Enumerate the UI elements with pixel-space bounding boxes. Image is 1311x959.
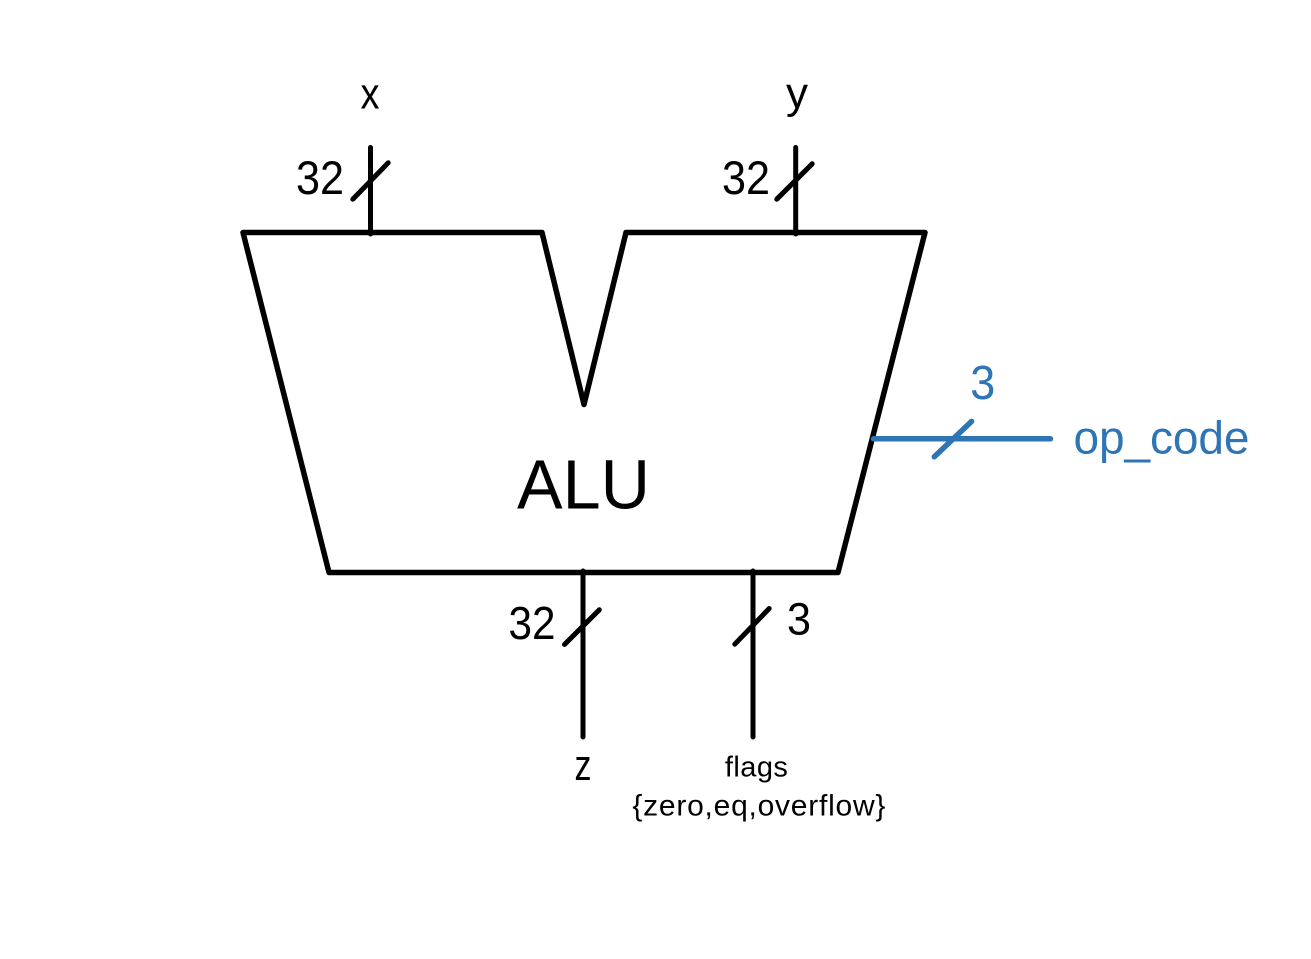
svg-text:ALU: ALU [517,446,650,524]
label y [786,69,808,118]
label flags [725,752,788,784]
svg-text:3: 3 [787,593,811,644]
bus slash y [777,164,812,199]
svg-text:x: x [361,69,380,118]
svg-text:flags: flags [725,752,788,784]
svg-text:3: 3 [970,357,995,410]
wire op_code input (blue) [874,436,1051,442]
svg-text:32: 32 [722,151,770,204]
wire x input [368,148,373,235]
label 3 op_code bus width (blue) [970,357,995,410]
bus slash op_code (blue) [934,421,971,456]
label z [575,741,592,790]
bus slash flags [735,609,769,645]
bus slash x [353,163,388,199]
label x [361,69,380,118]
label 32 y bus width [722,151,770,204]
bus slash z [565,610,600,645]
label ALU [517,446,650,524]
wire z output [581,571,586,737]
svg-text:op_code: op_code [1074,412,1250,464]
label 32 z bus width [509,597,556,649]
svg-text:y: y [786,69,808,118]
svg-text:{zero,eq,overflow}: {zero,eq,overflow} [632,790,885,823]
svg-text:32: 32 [296,151,344,204]
wire flags output [751,571,756,737]
svg-text:32: 32 [509,597,556,649]
label 32 x bus width [296,151,344,204]
svg-text:z: z [575,741,592,790]
label op_code (blue) [1074,412,1250,464]
label flags bit names [632,790,885,823]
wire y input [793,148,798,235]
label 3 flags bus width [787,593,811,644]
ALU body U1 [243,233,925,573]
